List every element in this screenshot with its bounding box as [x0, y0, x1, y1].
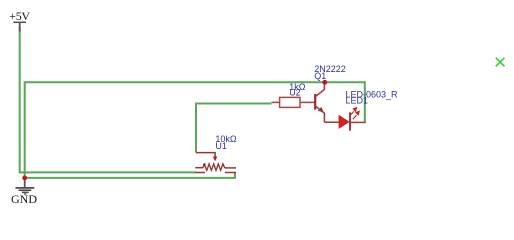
wire base net: U1 wiper up and right to U2 left pin	[196, 104, 272, 153]
potentiometer U1 (10k)	[195, 153, 236, 173]
transistor Q1 2N2222	[315, 82, 324, 122]
zigzag body	[203, 164, 225, 170]
resistor U2 (1k box style)	[272, 97, 316, 107]
wiper lead	[196, 153, 215, 157]
wiper arrowhead	[213, 157, 217, 162]
lower-right pin bar	[225, 172, 236, 174]
no-ERC cross marker	[496, 58, 505, 67]
junction dot at Q1 collector	[322, 80, 327, 85]
junction dot at GND	[22, 176, 27, 181]
power port +5V	[9, 9, 30, 31]
svg-text:GND: GND	[11, 192, 37, 206]
pin 1 dot of U1	[203, 163, 206, 166]
svg-text:LED1: LED1	[346, 96, 369, 106]
wire +5V vertical and horizontal to U1 left pin	[20, 27, 197, 173]
upper-right bar	[225, 167, 236, 169]
upper-left bar	[195, 167, 203, 169]
ground	[11, 178, 37, 206]
LED LED1	[324, 108, 366, 131]
svg-text:+5V: +5V	[9, 9, 30, 23]
wire GND bottom horizontal to U1 right pin	[25, 172, 235, 178]
svg-text:U1: U1	[215, 141, 227, 151]
lower-left pin bar	[195, 172, 205, 174]
svg-text:Q1: Q1	[314, 71, 326, 81]
wire GND net: vertical left, top horizontal, right vertical to LED cathode	[25, 82, 365, 178]
svg-text:U2: U2	[289, 88, 301, 98]
